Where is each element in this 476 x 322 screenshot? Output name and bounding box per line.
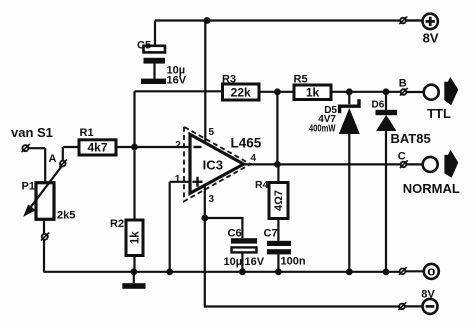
node pin3 C6 junction [201, 215, 208, 222]
pin 2 label [175, 140, 181, 151]
node R4 top junction [274, 161, 281, 168]
resistor R5 [294, 85, 331, 100]
svg-text:IC3: IC3 [203, 157, 223, 172]
wire S1 to P1 [44, 148, 46, 183]
svg-text:1k: 1k [129, 231, 141, 244]
wire R4 to C7 [277, 219, 279, 241]
D6 labels [372, 100, 431, 147]
diode D5 zener [339, 92, 360, 272]
svg-text:D6: D6 [372, 100, 385, 111]
pin 5 label [209, 127, 215, 138]
wire pin3 to -8V rail [205, 185, 400, 306]
C5 labels [137, 40, 187, 87]
IC3 labels [203, 136, 262, 173]
svg-text:C7: C7 [264, 227, 278, 239]
node B label [399, 78, 407, 90]
van S1 label [11, 125, 53, 140]
C7 labels [264, 227, 306, 267]
svg-text:4: 4 [251, 153, 257, 164]
0 label [427, 267, 436, 279]
node D6 top junction [383, 88, 390, 95]
ground (main) [122, 272, 145, 289]
svg-text:R4: R4 [255, 179, 269, 191]
connector B [400, 88, 408, 96]
node pin1 riser junction [166, 268, 173, 275]
svg-text:3: 3 [209, 194, 215, 205]
terminal +8V [406, 14, 438, 29]
node D5 top junction [346, 88, 353, 95]
C6 labels [224, 227, 265, 268]
node R2 bottom junction [130, 268, 137, 275]
connector -8V [398, 302, 406, 310]
wire R1 to pin2 [116, 146, 135, 148]
node C6 bottom junction [239, 268, 246, 275]
D5 labels [309, 105, 337, 134]
svg-text:4k7: 4k7 [87, 141, 107, 155]
resistor R1 [79, 140, 116, 155]
svg-text:A: A [49, 153, 57, 165]
wire pin2 input row [135, 146, 191, 148]
resistor R3 [223, 84, 260, 100]
P1 wiper arrow [23, 167, 61, 217]
pin 3 label [209, 194, 215, 205]
R3 labels [222, 74, 251, 100]
wire P1 bottom [43, 219, 45, 271]
svg-text:5: 5 [209, 127, 215, 138]
svg-text:8V: 8V [423, 31, 439, 46]
R1 labels [80, 127, 108, 155]
connector C [400, 160, 408, 168]
wire feedback row left of R3 [135, 90, 223, 92]
wire A to R1 [63, 146, 79, 148]
svg-text:B: B [399, 78, 407, 90]
R5 labels [294, 74, 320, 100]
svg-text:C6: C6 [228, 227, 242, 239]
connector node A [59, 147, 67, 167]
arrow TTL [444, 77, 458, 105]
wire ground 0 rail [43, 271, 400, 273]
svg-text:100n: 100n [281, 256, 306, 268]
svg-text:P1: P1 [22, 181, 35, 193]
capacitor C6 [231, 238, 257, 272]
wire R4 top lead [277, 164, 279, 182]
NORMAL label [403, 181, 460, 196]
wire C5 top lead [154, 21, 156, 46]
capacitor C5 [144, 46, 166, 79]
svg-text:R2: R2 [110, 218, 124, 230]
+8V label [423, 31, 439, 46]
svg-text:16V: 16V [245, 256, 265, 268]
R4 labels [255, 179, 285, 211]
wire output riser [276, 92, 278, 165]
svg-text:400mW: 400mW [309, 123, 336, 134]
svg-text:C5: C5 [137, 40, 151, 52]
wire R5 to B terminal [331, 91, 401, 93]
wire top +8V rail [155, 19, 422, 21]
wire R3 to R5 [259, 91, 294, 93]
op-amp U IC3 dashed outline [184, 127, 251, 202]
node A label [49, 153, 57, 165]
node pin2 junction [131, 144, 138, 151]
connector +8V [399, 16, 407, 24]
TTL label [427, 106, 451, 121]
svg-text:BAT85: BAT85 [391, 131, 431, 146]
wire C6 branch [205, 218, 243, 238]
wire pin1 row [170, 181, 190, 183]
op-amp IC3 [190, 134, 244, 193]
terminal -8V [405, 299, 438, 314]
svg-text:C: C [398, 151, 406, 163]
svg-text:1: 1 [175, 174, 181, 185]
svg-text:R3: R3 [222, 74, 236, 86]
node C label [398, 151, 406, 163]
potentiometer P1 [36, 183, 54, 220]
svg-text:NORMAL: NORMAL [403, 181, 460, 196]
terminal 0 [406, 264, 439, 279]
connector van S1 [22, 144, 46, 152]
svg-text:R1: R1 [80, 127, 94, 139]
node junction top rail to pin5 [204, 17, 211, 24]
P1 labels [22, 181, 76, 222]
svg-text:R5: R5 [294, 74, 308, 86]
connector 0 [399, 267, 407, 275]
terminal TTL [407, 85, 439, 100]
R2 labels [110, 218, 141, 244]
terminal NORMAL [407, 157, 438, 172]
wire output row [244, 163, 401, 165]
svg-text:1k: 1k [306, 85, 320, 99]
node D5 bottom junction [346, 268, 353, 275]
node D6 bottom junction [383, 268, 390, 275]
diode D6 [376, 92, 398, 272]
pin 1 label [175, 174, 181, 185]
connector P1 bottom [41, 233, 49, 241]
svg-text:2k5: 2k5 [57, 210, 75, 222]
resistor R2 [126, 147, 143, 272]
pin 4 label [251, 153, 257, 164]
svg-text:0: 0 [427, 267, 436, 279]
svg-text:L465: L465 [231, 136, 262, 151]
-8V label [421, 289, 435, 301]
wire pin5 supply [204, 21, 206, 144]
ground (C5) [141, 79, 166, 84]
wire pin1 ground riser [169, 182, 171, 272]
svg-text:22k: 22k [231, 86, 251, 100]
svg-text:2: 2 [175, 140, 181, 151]
svg-text:10µ: 10µ [224, 256, 243, 268]
IC3 inner symbols [193, 147, 203, 187]
node C7 bottom junction [275, 268, 282, 275]
svg-text:TTL: TTL [427, 106, 451, 121]
node output feedback junction [274, 88, 281, 95]
arrow NORMAL [444, 150, 458, 178]
svg-text:4Ω7: 4Ω7 [273, 190, 285, 211]
wire riser feedback to pin2 node [133, 91, 135, 147]
capacitor C7 [267, 241, 291, 272]
svg-text:van S1: van S1 [11, 125, 53, 140]
svg-text:16V: 16V [167, 75, 187, 87]
resistor R4 [269, 183, 288, 219]
